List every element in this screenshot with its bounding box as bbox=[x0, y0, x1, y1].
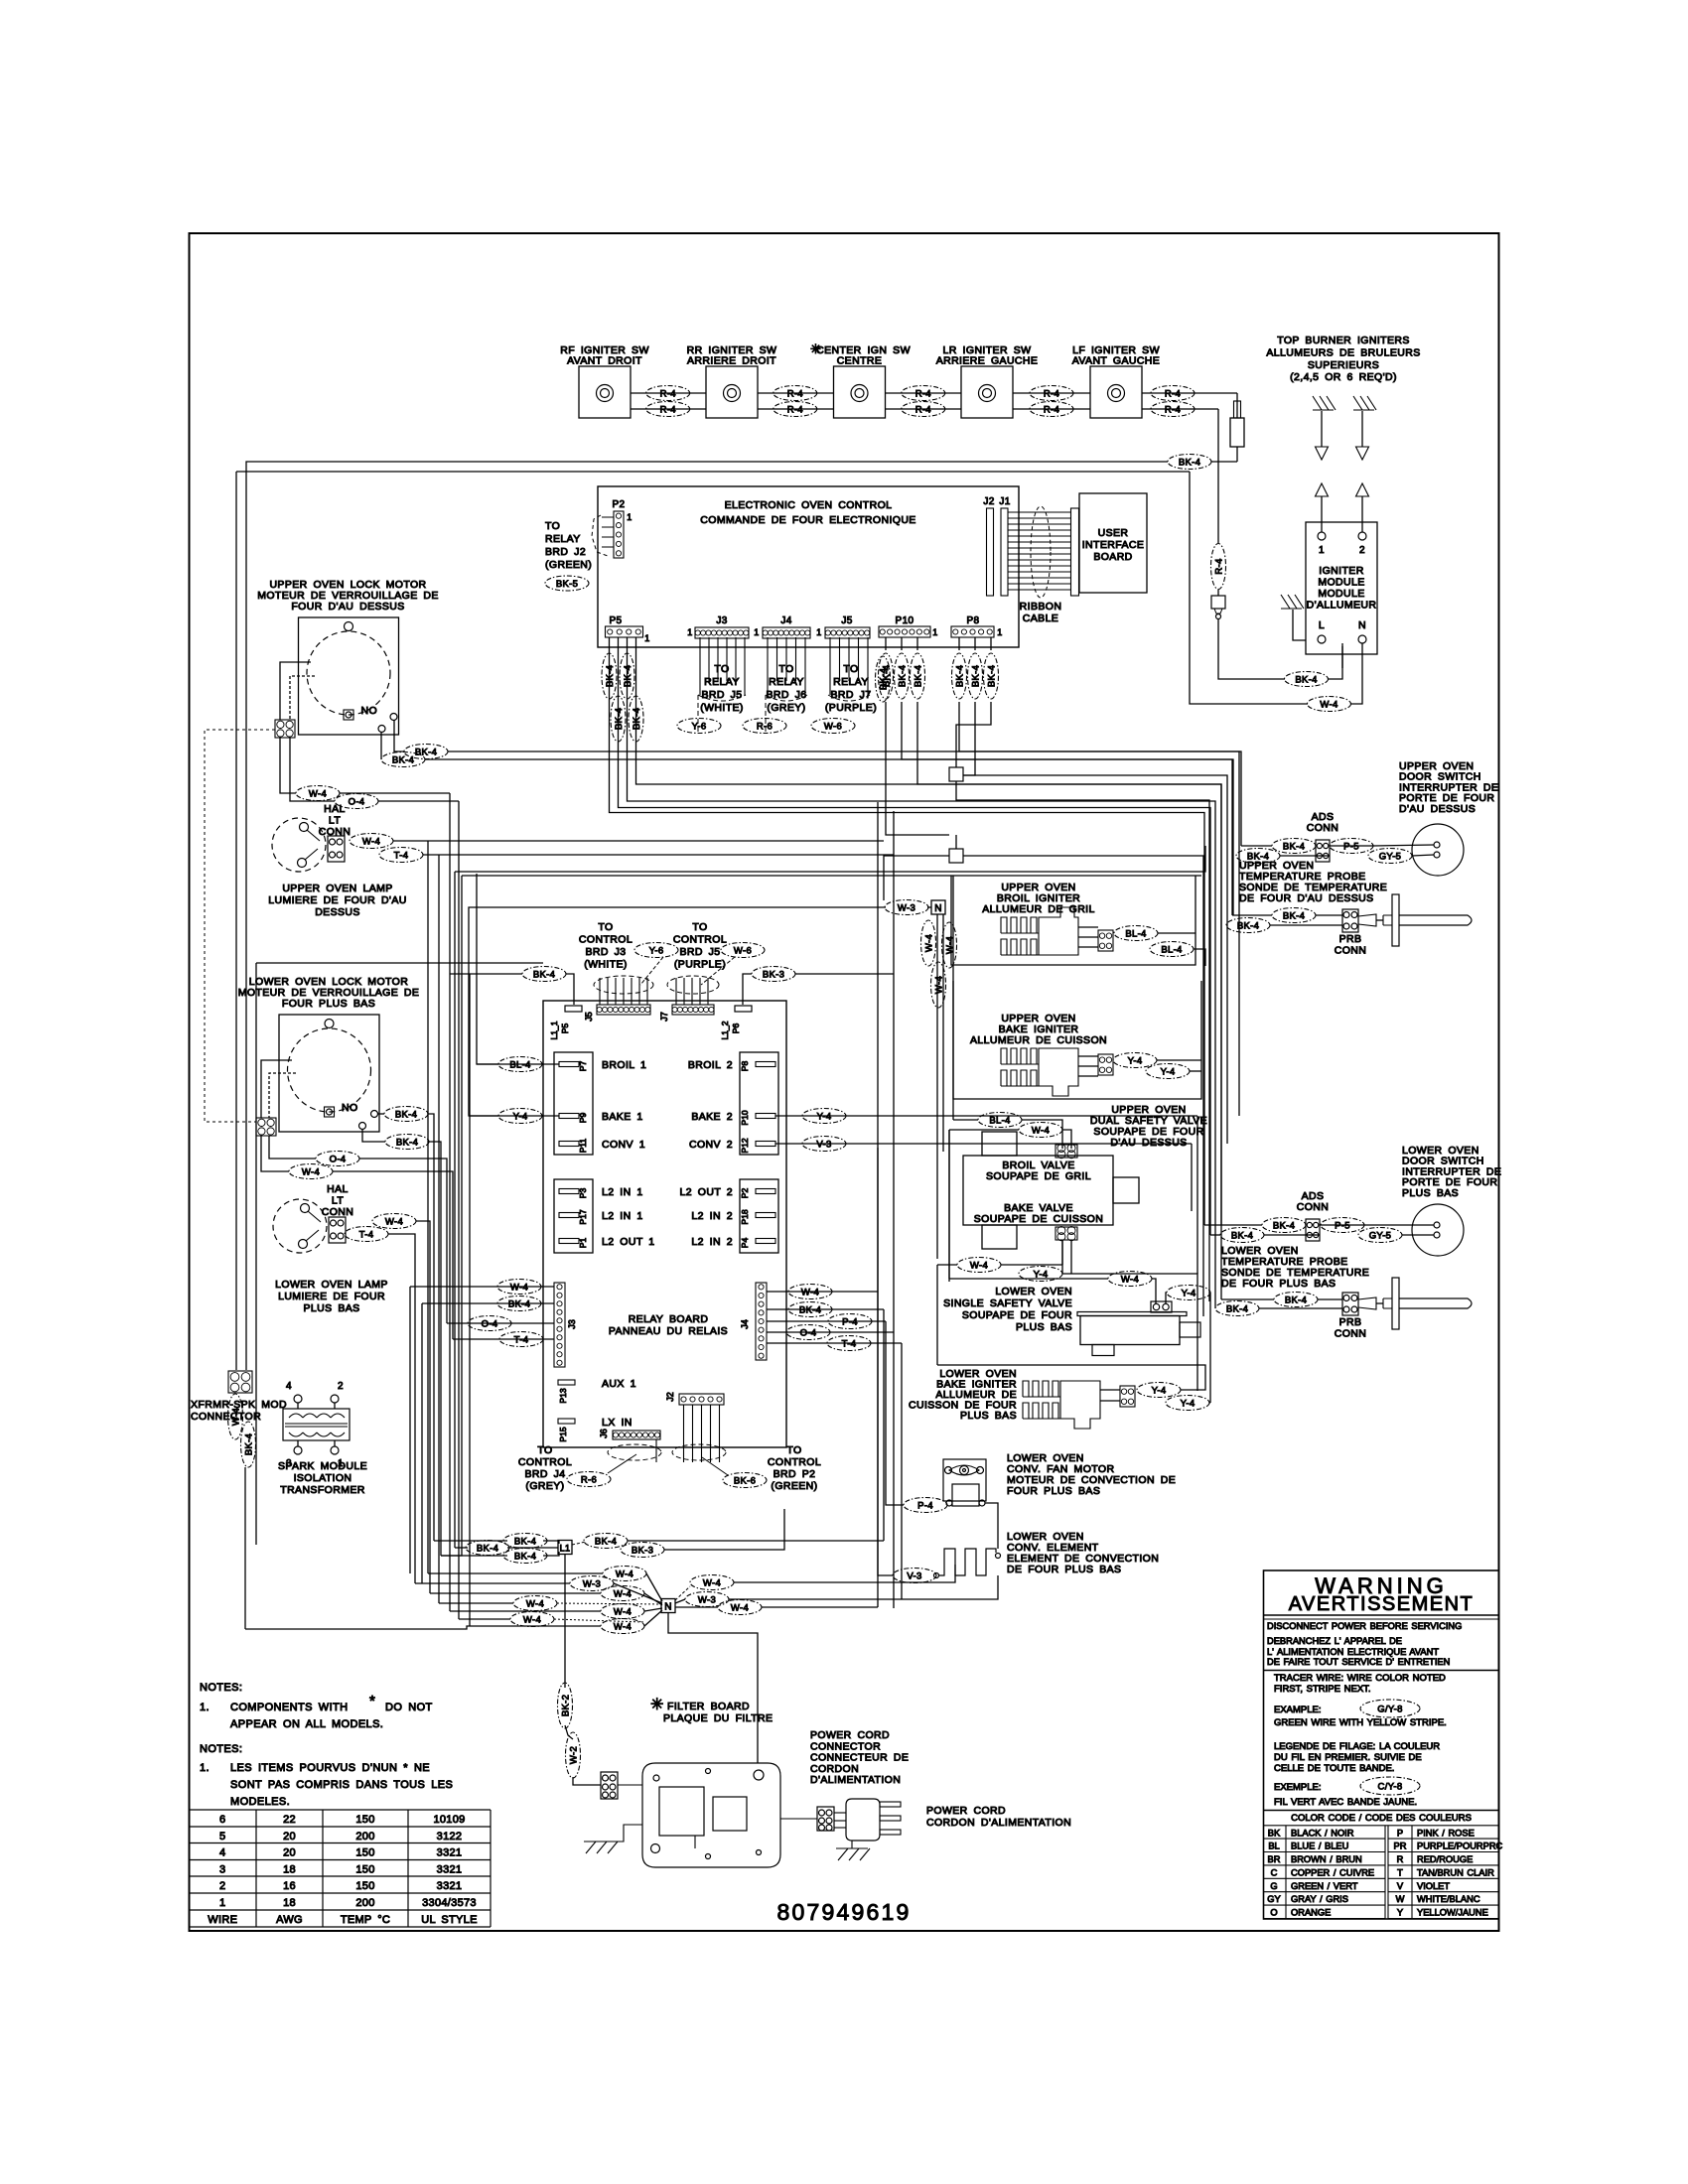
svg-text:BROWN / BRUN: BROWN / BRUN bbox=[1291, 1854, 1362, 1864]
wire label BK-4 vertical bbox=[611, 696, 626, 742]
svg-text:ALLUMEURS DE BRULEURS: ALLUMEURS DE BRULEURS bbox=[1266, 346, 1420, 358]
svg-text:P5: P5 bbox=[560, 1024, 570, 1034]
wire label Y-4 bbox=[498, 1109, 542, 1124]
svg-text:5: 5 bbox=[219, 1831, 225, 1843]
wire label R-4 bbox=[1030, 386, 1073, 401]
wire label R-4 bbox=[1030, 402, 1073, 417]
svg-text:FOUR PLUS BAS: FOUR PLUS BAS bbox=[282, 998, 375, 1010]
wire Y-4 to frame right bbox=[1157, 1059, 1201, 1061]
svg-text:2: 2 bbox=[219, 1880, 225, 1892]
svg-text:O: O bbox=[1270, 1908, 1277, 1918]
svg-text:BL-4: BL-4 bbox=[1161, 944, 1182, 955]
wire label BK-4 vertical bbox=[952, 653, 967, 699]
wires P5 bend right bbox=[610, 637, 1205, 1225]
svg-text:TRACER WIRE: WIRE COLOR NOTED: TRACER WIRE: WIRE COLOR NOTED bbox=[1274, 1673, 1446, 1684]
svg-text:BROIL 2: BROIL 2 bbox=[688, 1059, 733, 1071]
wire upper oven frame inner bbox=[462, 875, 1201, 877]
svg-text:COMPONENTS WITH: COMPONENTS WITH bbox=[230, 1702, 349, 1713]
svg-text:150: 150 bbox=[355, 1814, 374, 1826]
connector J3 on EOC bbox=[687, 615, 749, 638]
svg-text:BK-4: BK-4 bbox=[514, 1551, 536, 1562]
svg-text:R-4: R-4 bbox=[787, 388, 803, 399]
wire label R-4 bbox=[774, 402, 817, 417]
svg-text:16: 16 bbox=[283, 1880, 296, 1892]
wire label T-4 bbox=[345, 1227, 388, 1242]
svg-text:3122: 3122 bbox=[437, 1831, 463, 1843]
svg-text:V-3: V-3 bbox=[816, 1139, 831, 1150]
relay connectors P2 P18 P4 bbox=[740, 1179, 778, 1253]
door switch bbox=[1412, 824, 1464, 876]
wire square2 left bbox=[884, 856, 949, 900]
wire label BK-2 vertical bbox=[558, 1683, 573, 1728]
wire W-4 lower run bbox=[762, 1606, 878, 1608]
svg-text:G/Y-8: G/Y-8 bbox=[1377, 1704, 1402, 1714]
svg-text:CORDON D'ALIMENTATION: CORDON D'ALIMENTATION bbox=[926, 1817, 1071, 1829]
spark module transformer T1 bbox=[283, 1381, 350, 1469]
svg-text:BRD J5: BRD J5 bbox=[701, 689, 742, 701]
wire label W-4 bbox=[601, 1619, 644, 1634]
wire junction row1 bbox=[991, 751, 1239, 1116]
wire label BK-4 bbox=[1220, 1228, 1264, 1243]
svg-text:CONN: CONN bbox=[1335, 1328, 1367, 1340]
wires P8 drops bbox=[958, 637, 960, 650]
svg-text:WIRE: WIRE bbox=[208, 1914, 237, 1926]
svg-text:(PURPLE): (PURPLE) bbox=[825, 702, 877, 714]
svg-text:1: 1 bbox=[816, 627, 821, 637]
connector J5 on EOC bbox=[816, 615, 870, 638]
svg-text:BRD J7: BRD J7 bbox=[830, 689, 871, 701]
wire P8-2 routing bbox=[963, 702, 975, 775]
svg-text:PLUS BAS: PLUS BAS bbox=[303, 1302, 359, 1314]
svg-text:W-3: W-3 bbox=[583, 1578, 601, 1589]
node L1 bbox=[558, 1541, 572, 1555]
spark symbol at module bbox=[1281, 595, 1304, 609]
connector P8 on EOC bbox=[951, 615, 1003, 637]
svg-text:TO: TO bbox=[545, 520, 560, 532]
svg-text:BK-4: BK-4 bbox=[614, 708, 625, 730]
svg-text:L2 IN 1: L2 IN 1 bbox=[602, 1210, 643, 1222]
svg-text:DISCONNECT POWER BEFORE SERVIC: DISCONNECT POWER BEFORE SERVICING bbox=[1267, 1621, 1462, 1631]
filter board label bbox=[650, 1697, 773, 1724]
svg-text:CONN: CONN bbox=[1307, 822, 1339, 834]
wire label W-4 bbox=[601, 1586, 644, 1601]
svg-text:150: 150 bbox=[355, 1880, 374, 1892]
svg-text:AVERTISSEMENT: AVERTISSEMENT bbox=[1289, 1593, 1475, 1615]
wire label O-4 bbox=[316, 1152, 359, 1166]
power cord connector bbox=[817, 1807, 834, 1831]
wire N feed 4 dotted bbox=[557, 1603, 662, 1604]
svg-text:UL STYLE: UL STYLE bbox=[421, 1914, 477, 1926]
wire L1 right bbox=[572, 1542, 586, 1545]
wire W-3 from left bbox=[927, 906, 931, 908]
relay connectors P7 P9 P11 bbox=[554, 1052, 593, 1155]
svg-text:DE FOUR D'AU DESSUS: DE FOUR D'AU DESSUS bbox=[1239, 892, 1374, 904]
dual safety valve V1 bbox=[963, 1132, 1139, 1249]
svg-text:P5: P5 bbox=[609, 615, 622, 626]
svg-text:RELAY BOARD: RELAY BOARD bbox=[629, 1313, 709, 1325]
wire probe top bbox=[1232, 914, 1272, 916]
leader Y-6 funnel bbox=[640, 957, 663, 985]
svg-text:D'ALLUMEUR: D'ALLUMEUR bbox=[1307, 600, 1377, 612]
wire label P-4 bbox=[904, 1498, 947, 1513]
svg-text:(GREY): (GREY) bbox=[525, 1480, 564, 1492]
svg-text:J4: J4 bbox=[780, 615, 791, 626]
svg-text:O-4: O-4 bbox=[330, 1154, 347, 1164]
connector P10 on EOC bbox=[879, 615, 938, 637]
svg-text:TRANSFORMER: TRANSFORMER bbox=[280, 1484, 364, 1496]
connector J1 bbox=[999, 496, 1010, 596]
wire label BL-4 bbox=[1150, 942, 1194, 957]
wire label W-6 bbox=[721, 943, 765, 958]
wire BK-4 left bbox=[450, 973, 522, 975]
svg-text:W-3: W-3 bbox=[698, 1594, 716, 1605]
svg-text:3321: 3321 bbox=[437, 1847, 463, 1859]
svg-text:Y-4: Y-4 bbox=[1128, 1055, 1143, 1066]
svg-text:HAL: HAL bbox=[324, 803, 346, 815]
wire label BK-4 bbox=[384, 1107, 428, 1122]
wire Y-4 valve to lower bbox=[1062, 1274, 1197, 1391]
electrode arrow down bbox=[1356, 411, 1369, 460]
wire label W-4 bbox=[1108, 1272, 1152, 1287]
wire N feed 1 bbox=[428, 1572, 603, 1574]
svg-text:ORANGE: ORANGE bbox=[1291, 1908, 1331, 1918]
wire label R-4 bbox=[774, 386, 817, 401]
wire N column down bbox=[936, 1265, 938, 1365]
svg-text:P8: P8 bbox=[740, 1061, 750, 1072]
wire label W-3 bbox=[885, 900, 928, 915]
lamp connector bbox=[328, 836, 345, 862]
filter board connector bbox=[601, 1772, 618, 1799]
electrode arrow up bbox=[1356, 483, 1369, 532]
wire BK-3 right bbox=[664, 1509, 784, 1550]
valve connector bottom bbox=[1055, 1227, 1077, 1241]
svg-text:BK-4: BK-4 bbox=[243, 1433, 254, 1455]
wire bundle left verticals bbox=[449, 793, 451, 1611]
wire label BK-4 2 bbox=[385, 1135, 429, 1150]
svg-text:J5: J5 bbox=[584, 1012, 594, 1022]
svg-text:D'ALIMENTATION: D'ALIMENTATION bbox=[810, 1774, 901, 1786]
wire label V-3 bbox=[893, 1569, 936, 1583]
svg-text:W-4: W-4 bbox=[923, 934, 934, 952]
svg-text:TO: TO bbox=[537, 1444, 552, 1456]
dashed harness ellipse 2 bbox=[672, 1444, 726, 1460]
svg-text:BL-4: BL-4 bbox=[509, 1059, 530, 1070]
svg-text:BLACK / NOIR: BLACK / NOIR bbox=[1291, 1828, 1354, 1838]
svg-text:J2: J2 bbox=[665, 1392, 675, 1402]
svg-text:SUPERIEURS: SUPERIEURS bbox=[1308, 359, 1379, 371]
svg-text:R-6: R-6 bbox=[581, 1474, 597, 1485]
wire label BK-4 bbox=[1272, 839, 1316, 854]
wire W-4 stub bbox=[1001, 1264, 1062, 1266]
wire N right 1 bbox=[675, 1586, 690, 1600]
svg-text:FIRST, STRIPE NEXT.: FIRST, STRIPE NEXT. bbox=[1274, 1684, 1371, 1695]
svg-text:P-4: P-4 bbox=[842, 1316, 858, 1327]
motor rotor bbox=[288, 1028, 371, 1112]
wire label BK-4 bbox=[503, 1549, 547, 1564]
svg-text:CONNECTEUR DE: CONNECTEUR DE bbox=[810, 1752, 909, 1764]
svg-text:AVANT DROIT: AVANT DROIT bbox=[567, 355, 642, 367]
svg-text:W-4: W-4 bbox=[1032, 1125, 1050, 1136]
wire P-4 left bbox=[886, 1321, 904, 1505]
ground symbol left bbox=[584, 1842, 618, 1853]
wire junction1 right bbox=[963, 775, 1227, 1144]
svg-text:T: T bbox=[1397, 1867, 1403, 1877]
wire label W-4 bbox=[289, 1164, 333, 1179]
svg-text:CONTROL: CONTROL bbox=[768, 1456, 821, 1468]
wire BL-4 lower right bbox=[1194, 949, 1205, 966]
svg-text:BK-4: BK-4 bbox=[1283, 910, 1305, 921]
svg-text:W-3: W-3 bbox=[898, 902, 915, 913]
svg-text:LOWER OVEN: LOWER OVEN bbox=[995, 1286, 1072, 1297]
wire label O-4 bbox=[786, 1325, 830, 1340]
wire lamp W-4 bbox=[393, 840, 884, 842]
wire label O-4 bbox=[468, 1316, 511, 1331]
svg-text:SPARK MODULE: SPARK MODULE bbox=[278, 1460, 367, 1472]
wire label BL-4 bbox=[1114, 926, 1158, 941]
svg-text:NOTES:: NOTES: bbox=[200, 1743, 242, 1755]
svg-text:J3: J3 bbox=[716, 615, 727, 626]
svg-text:PLUS BAS: PLUS BAS bbox=[1402, 1187, 1459, 1199]
svg-text:LT: LT bbox=[329, 815, 341, 827]
wire label W-4 bbox=[1019, 1123, 1062, 1138]
svg-text:EXAMPLE:: EXAMPLE: bbox=[1274, 1705, 1322, 1715]
svg-text:(GREEN): (GREEN) bbox=[545, 559, 592, 571]
svg-text:CONNECTOR: CONNECTOR bbox=[191, 1411, 261, 1423]
wire igniter row bbox=[758, 392, 834, 394]
svg-text:LX IN: LX IN bbox=[602, 1417, 633, 1429]
wire label W-4 vertical bbox=[228, 1394, 243, 1439]
svg-text:4: 4 bbox=[286, 1381, 292, 1392]
connector J3 relay bbox=[554, 1283, 577, 1367]
wire label BK-4 vertical bbox=[911, 653, 925, 699]
svg-text:20: 20 bbox=[283, 1847, 296, 1859]
svg-text:CONN: CONN bbox=[1335, 945, 1367, 957]
wire igniter row bbox=[631, 392, 706, 394]
connector P15 LX IN bbox=[558, 1417, 633, 1442]
fuse F1 bbox=[1230, 401, 1244, 447]
svg-text:NO: NO bbox=[361, 705, 378, 717]
svg-text:CONTROL: CONTROL bbox=[518, 1456, 572, 1468]
svg-text:L' ALIMENTATION ELECTRIQUE A: L' ALIMENTATION ELECTRIQUE AVANT bbox=[1267, 1647, 1439, 1657]
wire label Y-4 bbox=[1146, 1064, 1190, 1079]
connector motor bbox=[275, 720, 295, 738]
node N bbox=[661, 1599, 675, 1613]
svg-text:R-4: R-4 bbox=[660, 404, 676, 415]
wires into L1 bbox=[543, 1541, 559, 1544]
wire connector to board bbox=[618, 1784, 642, 1786]
svg-text:3321: 3321 bbox=[437, 1880, 463, 1892]
svg-text:SINGLE SAFETY VALVE: SINGLE SAFETY VALVE bbox=[943, 1297, 1072, 1309]
svg-text:P: P bbox=[1397, 1828, 1403, 1838]
svg-text:1: 1 bbox=[997, 627, 1002, 637]
wire N feed 6 bbox=[459, 1618, 510, 1620]
wire label P-5 bbox=[1330, 839, 1373, 854]
connector J7 relay bbox=[659, 1005, 714, 1022]
svg-text:RELAY: RELAY bbox=[704, 676, 740, 688]
svg-text:P2: P2 bbox=[740, 1188, 750, 1199]
wire BK-3 to P6 bar bbox=[743, 974, 752, 1005]
wires converge to N bbox=[646, 1573, 662, 1601]
wire motor2 NO 1 bbox=[377, 1113, 384, 1115]
connector J2 bbox=[983, 496, 994, 596]
wire label BK-3 bbox=[621, 1543, 664, 1558]
svg-text:BK-5: BK-5 bbox=[556, 579, 578, 590]
wire label R-4 vertical bbox=[1211, 544, 1226, 590]
wire bus BK-4 upper bbox=[1211, 461, 1237, 463]
svg-text:R-4: R-4 bbox=[1165, 404, 1181, 415]
lower motor area frame top bbox=[256, 962, 543, 964]
wire O-4 right bbox=[378, 800, 459, 802]
svg-text:CONV 2: CONV 2 bbox=[689, 1139, 733, 1151]
wire label W-6 bbox=[811, 719, 855, 734]
svg-text:V: V bbox=[1397, 1881, 1404, 1891]
svg-text:TO: TO bbox=[778, 663, 793, 675]
harness EOC J4 to relay (grey) bbox=[766, 637, 807, 735]
motor rotor bbox=[307, 631, 390, 715]
wire P8-1 to junction bbox=[959, 702, 991, 751]
svg-text:BK-3: BK-3 bbox=[763, 969, 784, 980]
wire ADS to switch top bbox=[1241, 845, 1272, 847]
svg-text:BK-4: BK-4 bbox=[1295, 674, 1317, 685]
wire O-4 to bundle bbox=[359, 1159, 447, 1323]
upper oven halogen lamp LP1 bbox=[272, 818, 326, 872]
wire left spine outer down bbox=[454, 872, 456, 1548]
wire Y-4 up right bbox=[937, 1365, 1205, 1390]
igniter switch S4 (LR IGNITER SW) bbox=[936, 344, 1039, 418]
probe connector PRB bbox=[1342, 1293, 1358, 1315]
harness funnel above relay J7 bbox=[667, 976, 719, 994]
svg-text:SOUPAPE DE GRIL: SOUPAPE DE GRIL bbox=[986, 1170, 1091, 1182]
wires motor2 leads bbox=[261, 1060, 292, 1118]
wire label BK-4 vertical bbox=[984, 653, 999, 699]
svg-text:807949619: 807949619 bbox=[777, 1899, 912, 1925]
svg-text:ARRIERE GAUCHE: ARRIERE GAUCHE bbox=[936, 355, 1039, 367]
wire label W-4 bbox=[372, 1214, 416, 1229]
dashed harness ellipse bbox=[608, 1444, 661, 1460]
wires igniter to connector bbox=[1078, 926, 1098, 928]
wire label BK-4 vertical bbox=[968, 653, 983, 699]
node N upper bbox=[931, 900, 945, 914]
wire W-4 to bundle bbox=[333, 1171, 453, 1339]
svg-text:GREEN WIRE WITH YELLOW STRIPE.: GREEN WIRE WITH YELLOW STRIPE. bbox=[1274, 1717, 1447, 1728]
wire igniter row bbox=[1142, 392, 1237, 394]
wire J4-2 bbox=[767, 1308, 884, 1310]
wire to igniter fuse bbox=[1236, 393, 1238, 418]
svg-text:W-2: W-2 bbox=[568, 1746, 579, 1764]
svg-text:W-4: W-4 bbox=[616, 1569, 633, 1579]
wire lamp2 W-4 bbox=[416, 1221, 430, 1593]
svg-text:LES ITEMS POURVUS D'NUN * NE: LES ITEMS POURVUS D'NUN * NE bbox=[230, 1762, 430, 1774]
svg-text:BRD J6: BRD J6 bbox=[766, 689, 806, 701]
wire label BK-4 2 bbox=[404, 745, 448, 759]
wires P10 drops bbox=[885, 637, 887, 650]
wire lower probe top bbox=[1221, 1298, 1274, 1300]
wire label T-4 bbox=[499, 1332, 543, 1347]
wire label W-4 bbox=[603, 1567, 646, 1581]
svg-text:1: 1 bbox=[219, 1897, 225, 1909]
wire label Y-4 bbox=[802, 1109, 846, 1124]
svg-text:W-4: W-4 bbox=[510, 1282, 528, 1293]
wire N down to filter board bbox=[668, 1612, 758, 1763]
svg-text:R-4: R-4 bbox=[915, 388, 931, 399]
wire J4-3 bbox=[767, 1320, 886, 1322]
wire BK-4 to bus bbox=[425, 759, 1232, 915]
power cord plug bbox=[834, 1799, 901, 1841]
svg-text:TOP BURNER IGNITERS: TOP BURNER IGNITERS bbox=[1277, 335, 1410, 346]
svg-text:SONT PAS COMPRIS DANS TOUS LES: SONT PAS COMPRIS DANS TOUS LES bbox=[230, 1779, 453, 1791]
wire L1 down 2 bbox=[565, 1725, 573, 1739]
svg-text:POWER CORD: POWER CORD bbox=[926, 1805, 1006, 1817]
wire label BK-4 bbox=[1226, 918, 1270, 933]
wire board ground left bbox=[612, 1825, 642, 1842]
svg-text:3: 3 bbox=[219, 1864, 225, 1876]
svg-text:W-4: W-4 bbox=[933, 976, 944, 994]
svg-text:P6: P6 bbox=[731, 1024, 741, 1034]
wire label BL-4 bbox=[498, 1057, 542, 1072]
wire label T-4 bbox=[827, 1336, 871, 1351]
wire label BK-4 bbox=[1236, 849, 1280, 864]
electronic oven control board bbox=[598, 486, 1019, 647]
svg-text:18: 18 bbox=[283, 1897, 296, 1909]
connector bbox=[1120, 1386, 1135, 1407]
svg-text:J1: J1 bbox=[999, 496, 1010, 507]
wire left spine inner down bbox=[461, 876, 463, 974]
svg-text:UPPER OVEN LAMP: UPPER OVEN LAMP bbox=[282, 883, 392, 894]
wires J4 relay right bbox=[767, 1291, 878, 1293]
svg-text:J2: J2 bbox=[983, 496, 994, 507]
svg-text:PLAQUE DU FILTRE: PLAQUE DU FILTRE bbox=[663, 1712, 773, 1724]
svg-text:2: 2 bbox=[1359, 545, 1365, 556]
svg-text:ISOLATION: ISOLATION bbox=[294, 1472, 352, 1484]
svg-text:BK: BK bbox=[1268, 1828, 1281, 1838]
wire upper oven frame outer bbox=[455, 846, 1205, 872]
svg-text:1: 1 bbox=[687, 627, 692, 637]
svg-text:BK-4: BK-4 bbox=[632, 708, 642, 730]
svg-text:DESSUS: DESSUS bbox=[315, 906, 360, 918]
svg-text:RED/ROUGE: RED/ROUGE bbox=[1417, 1854, 1473, 1864]
svg-text:J3: J3 bbox=[567, 1319, 577, 1329]
electrode arrow down bbox=[1316, 411, 1329, 460]
wire P8-3b routing bbox=[956, 781, 1209, 1301]
svg-text:R-4: R-4 bbox=[787, 404, 803, 415]
svg-text:D'AU DESSUS: D'AU DESSUS bbox=[1110, 1137, 1187, 1149]
svg-text:GY-5: GY-5 bbox=[1369, 1230, 1392, 1241]
lower motor area frame bbox=[255, 963, 257, 1545]
border frame bbox=[190, 233, 1499, 1931]
wire label BK-3 bbox=[752, 967, 795, 982]
svg-text:BK-4: BK-4 bbox=[396, 1137, 418, 1148]
svg-text:W-4: W-4 bbox=[970, 1260, 988, 1271]
svg-text:W-6: W-6 bbox=[824, 721, 842, 732]
wire P8-3 routing bbox=[956, 702, 991, 767]
svg-text:BK-2: BK-2 bbox=[560, 1695, 571, 1716]
svg-text:BK-4: BK-4 bbox=[605, 665, 616, 687]
svg-text:RELAY: RELAY bbox=[833, 676, 869, 688]
svg-text:BRD J5: BRD J5 bbox=[679, 946, 720, 958]
wire BK-4 lower right bbox=[429, 1142, 441, 1556]
connector P13 AUX1 bbox=[558, 1378, 636, 1404]
svg-text:L2 IN 1: L2 IN 1 bbox=[602, 1186, 643, 1198]
svg-text:BK-4: BK-4 bbox=[415, 747, 437, 757]
svg-text:W-6: W-6 bbox=[734, 945, 752, 956]
ground symbol plug bbox=[836, 1848, 870, 1860]
svg-text:MODULE: MODULE bbox=[1318, 577, 1364, 589]
svg-text:W-4: W-4 bbox=[703, 1577, 721, 1588]
wire lower probe bottom bbox=[1259, 1307, 1342, 1309]
svg-text:TAN/BRUN CLAIR: TAN/BRUN CLAIR bbox=[1417, 1867, 1494, 1877]
svg-text:P1: P1 bbox=[578, 1238, 588, 1249]
wire label W-4 bbox=[513, 1596, 557, 1611]
